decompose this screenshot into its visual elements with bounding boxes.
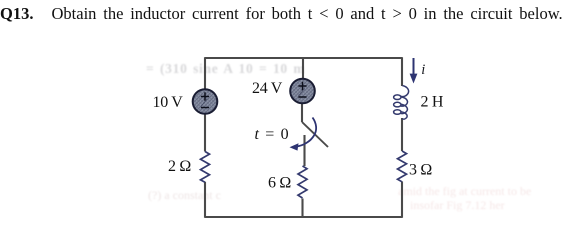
wire right mid (401, 118, 403, 151)
wire bottom (205, 216, 402, 218)
resistor R3 3ohm (398, 151, 407, 182)
svg-text:6 Ω: 6 Ω (268, 175, 291, 192)
inductor L1 2H (394, 86, 409, 120)
wire left lower (204, 182, 206, 218)
svg-text:Q13.: Q13. (0, 4, 33, 23)
wire left mid (204, 114, 206, 152)
svg-text:3 Ω: 3 Ω (409, 162, 432, 179)
svg-text:2 H: 2 H (421, 94, 444, 111)
voltage source V1 10V (193, 89, 218, 114)
svg-text:Obtain the inductor current fo: Obtain the inductor current for both t <… (52, 4, 563, 23)
svg-text:(?) a constant c: (?) a constant c (148, 188, 221, 202)
wire left upper (204, 57, 206, 89)
wire middle below source to switch (301, 104, 303, 123)
wire top (205, 57, 402, 59)
resistor R2 6ohm (298, 166, 307, 198)
wire middle below 6ohm (301, 199, 303, 218)
wire right lower (401, 182, 403, 218)
svg-text:insofar Fig 7.12 her: insofar Fig 7.12 her (410, 198, 505, 212)
svg-text:= (310 sine A 10 = 10 m: = (310 sine A 10 = 10 m (146, 61, 305, 76)
voltage source V2 24V (290, 79, 315, 104)
svg-text:24 V: 24 V (252, 80, 283, 97)
switch arc arrow (t=0) (296, 118, 316, 147)
svg-text:t = 0: t = 0 (255, 126, 289, 143)
svg-text:amid the fig at current to be: amid the fig at current to be (398, 184, 531, 198)
resistor R1 2ohm (201, 152, 210, 183)
wire middle upper (302, 58, 304, 79)
svg-text:i: i (421, 62, 425, 78)
svg-text:2 Ω: 2 Ω (168, 158, 191, 175)
svg-text:10 V: 10 V (153, 94, 184, 111)
current arrow i (413, 58, 415, 76)
switch blade (302, 122, 328, 147)
wire right upper (401, 57, 403, 86)
switch bottom contact wire (303, 135, 305, 166)
